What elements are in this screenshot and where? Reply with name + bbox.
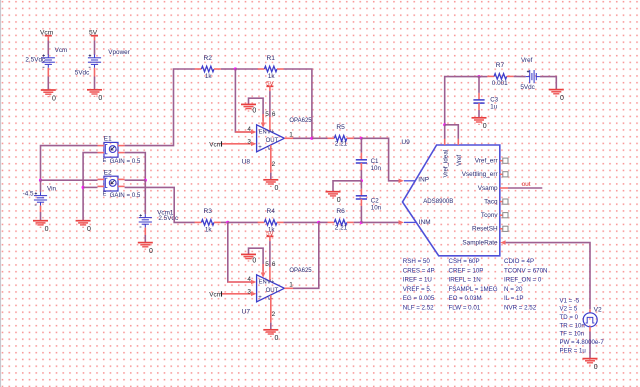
pin Vsamp stub [500, 187, 508, 189]
pin Tconv stub [500, 214, 503, 216]
svg-text:4: 4 [247, 126, 251, 133]
svg-text:6: 6 [272, 111, 276, 118]
pin Vref_err no-connect square [503, 158, 508, 163]
wire to pin 4 of U7 [228, 281, 251, 283]
svg-text:Vref: Vref [521, 57, 533, 64]
svg-text:1u: 1u [490, 104, 497, 111]
junction node C [317, 221, 320, 224]
wire U8 out to R5 node [293, 137, 312, 139]
svg-text:NVR = 2.52: NVR = 2.52 [504, 304, 537, 311]
voltage source Vcm1 battery [139, 214, 152, 227]
ground 0 under V2 [583, 359, 598, 366]
svg-text:10n: 10n [371, 165, 382, 172]
pin Vsettling_err no-connect square [503, 172, 508, 177]
ground at pin5 of U8 [241, 104, 256, 111]
svg-text:3: 3 [247, 138, 251, 145]
pin INP line [404, 180, 415, 182]
svg-text:ResetSH: ResetSH [472, 226, 498, 233]
capacitor C2 bottom pin [360, 199, 362, 206]
svg-text:0: 0 [560, 95, 564, 102]
resistor R3 body [201, 220, 214, 226]
svg-text:OPA625: OPA625 [289, 118, 312, 124]
wire junction to R7 [479, 76, 487, 78]
svg-text:5Vdc: 5Vdc [520, 84, 534, 91]
svg-text:OUT: OUT [266, 288, 279, 294]
svg-text:0: 0 [275, 335, 279, 342]
wire Vin battery to ground [40, 206, 42, 212]
pin Tacq no-connect square [503, 199, 508, 204]
pin INP arrow [399, 179, 404, 184]
resistor R6 left pin [328, 221, 335, 223]
svg-text:1k: 1k [205, 226, 213, 233]
wire C1 to mid node [360, 170, 362, 181]
svg-text:TCONV = 670N: TCONV = 670N [504, 267, 548, 274]
wire E2 minus input [83, 186, 97, 188]
op-amp U7 triangle [257, 275, 285, 302]
power port 5V for U8 [266, 85, 273, 87]
power port 5V symbol [91, 35, 98, 37]
wire C3 to ground [478, 110, 480, 118]
wire mid node down to C2 [360, 181, 362, 189]
ground 0 under Vpower [87, 90, 102, 97]
svg-text:IL = 1P: IL = 1P [504, 295, 524, 302]
svg-text:0.001: 0.001 [492, 80, 508, 87]
pin INM line [404, 221, 416, 223]
resistor R4 left pin [258, 221, 265, 223]
svg-text:Vsamp: Vsamp [478, 185, 498, 192]
voltage source Vcm battery [42, 54, 55, 67]
resistor R3 left pin [195, 221, 202, 223]
pin ResetSH stub [500, 228, 503, 230]
svg-text:2.5Vdc: 2.5Vdc [25, 57, 45, 64]
wire V2 to ground [589, 332, 591, 359]
pin Tacq stub [500, 201, 503, 203]
wire E1 minus output down to E2 [125, 153, 146, 181]
wire R6 to INM node [354, 221, 362, 223]
wire node B down to U7 pin4 [228, 222, 251, 282]
svg-text:U8: U8 [242, 158, 251, 165]
wire R4 to node C [284, 221, 319, 223]
svg-text:INP: INP [418, 177, 429, 184]
svg-text:V+: V+ [267, 129, 275, 135]
svg-text:Vsettling_err: Vsettling_err [462, 171, 499, 178]
junction Vref net at C3 [477, 75, 480, 78]
VCVS E1 source circle [109, 146, 116, 153]
svg-text:Vref_err: Vref_err [475, 158, 499, 165]
pin Vsettling_err stub [500, 173, 503, 175]
wire Vin node to battery [40, 180, 42, 192]
wire mid node to ground [333, 181, 361, 192]
wire Vcm port to battery [47, 41, 49, 55]
svg-text:2.21: 2.21 [335, 141, 348, 148]
svg-text:R5: R5 [336, 124, 345, 131]
svg-text:R4: R4 [267, 208, 276, 215]
svg-text:0: 0 [87, 226, 91, 233]
svg-text:0: 0 [275, 185, 279, 192]
wire to pin 4 of U8 [235, 131, 250, 133]
wire pin2 to ground of U7 [270, 323, 272, 330]
svg-text:-4.5: -4.5 [23, 190, 34, 197]
pin INM arrow [399, 220, 404, 225]
ADC U9 block outline [403, 145, 500, 256]
wire Vpower battery to ground [94, 68, 96, 77]
resistor R2 body [201, 66, 214, 72]
pin 5 arrow of U8 [261, 123, 266, 128]
svg-text:2.5Vdc: 2.5Vdc [158, 215, 178, 222]
ground 0 under Vcm1 [138, 243, 153, 250]
junction R5 C1 node [360, 137, 363, 140]
svg-text:V-: V- [267, 146, 273, 152]
VCVS E2 left input pins [98, 178, 105, 180]
wire node A to R1 [235, 68, 258, 70]
wire SampleRate to V2 [506, 243, 590, 310]
svg-text:10n: 10n [371, 205, 382, 212]
svg-text:5Vdc: 5Vdc [75, 70, 89, 77]
svg-text:U9: U9 [401, 139, 410, 146]
svg-text:R3: R3 [204, 208, 213, 215]
svg-text:4: 4 [247, 276, 251, 283]
op-amp U8 triangle [257, 125, 285, 152]
resistor R7 left pin [487, 75, 494, 77]
voltage source Vin battery [34, 192, 47, 205]
VCVS E2 body [104, 176, 118, 191]
wire pin5 to ground of U8 [249, 98, 264, 121]
svg-text:0: 0 [252, 108, 256, 115]
svg-text:INM: INM [419, 219, 431, 226]
junction at Vin node [39, 179, 42, 182]
svg-text:TR = 10n: TR = 10n [560, 322, 585, 329]
svg-text:PW = 4.8000e-7: PW = 4.8000e-7 [560, 339, 605, 346]
svg-text:CDIO = 4P: CDIO = 4P [504, 258, 534, 265]
svg-text:0: 0 [149, 248, 153, 255]
svg-text:3: 3 [247, 288, 251, 295]
junction node A [234, 67, 237, 70]
capacitor C3 plates [473, 100, 484, 103]
resistor R3 right pin [214, 221, 221, 223]
wire R5 to C1 node [354, 137, 362, 139]
svg-text:R6: R6 [336, 208, 345, 215]
svg-text:V2 = 5: V2 = 5 [560, 306, 578, 313]
wire R1 to feedback corner [284, 69, 312, 138]
resistor R7 right pin [507, 75, 514, 77]
wire Vin node up to E1 input [41, 146, 98, 181]
resistor R6 body [334, 220, 347, 226]
svg-text:E: E [103, 192, 107, 198]
svg-text:E1: E1 [104, 136, 112, 143]
wire to Vref_ideal pin [444, 125, 446, 139]
svg-text:C2: C2 [371, 197, 379, 204]
svg-text:IREF = 1U: IREF = 1U [403, 277, 432, 284]
ground 0 under Vref [549, 90, 564, 97]
pin 3 arrow of U7 [251, 292, 256, 297]
svg-text:V1 = -5: V1 = -5 [560, 297, 580, 304]
svg-text:C3: C3 [490, 96, 498, 103]
wire node A down to U8 pin4 [235, 69, 251, 132]
svg-text:V+: V+ [267, 279, 275, 285]
wire Vcm1 node to battery [144, 180, 146, 214]
capacitor C1 top pin [360, 153, 362, 160]
pin Vref_err stub [500, 160, 503, 162]
ground at pin5 of U7 [241, 254, 256, 261]
wire node C down to U7 out [293, 222, 319, 288]
capacitor C3 top pin [478, 93, 480, 100]
svg-text:VREF = 5.: VREF = 5. [403, 286, 432, 293]
wire Vcm1 battery to ground [144, 228, 146, 235]
VCVS E1 right output pins [118, 145, 125, 147]
VCVS E1 left input pins [98, 145, 105, 147]
svg-text:C1: C1 [371, 158, 379, 165]
svg-text:EG = 0.005: EG = 0.005 [403, 295, 435, 302]
pulse source V2 waveform glyph [586, 317, 595, 323]
svg-text:NLF = 2.52: NLF = 2.52 [403, 304, 434, 311]
VCVS E2 input bracket [106, 178, 108, 187]
svg-text:EN: EN [259, 129, 267, 135]
capacitor C2 plates [356, 196, 367, 199]
pin 5 stub of U7 [262, 264, 264, 273]
resistor R5 right pin [347, 137, 354, 139]
svg-text:2: 2 [272, 161, 276, 168]
pin SampleRate arrow [500, 240, 505, 245]
ground at pin2 of U7 [263, 330, 278, 337]
ground 0 under C3 [472, 118, 487, 125]
svg-text:0: 0 [98, 95, 102, 102]
wire node C to R6 [319, 221, 328, 223]
junction cap midpoint [360, 179, 363, 182]
wire R3 to node B [221, 221, 228, 223]
svg-text:FSAMPL = 1MEG: FSAMPL = 1MEG [449, 286, 498, 293]
svg-text:R2: R2 [204, 55, 213, 62]
power port 5V for U7 [266, 235, 273, 237]
svg-text:CRES = 4P: CRES = 4P [403, 267, 435, 274]
svg-text:0: 0 [337, 197, 341, 204]
svg-text:1: 1 [289, 132, 293, 139]
svg-text:E2: E2 [104, 169, 112, 176]
pin 6 stub of U7 [269, 267, 271, 281]
resistor R2 right pin [214, 68, 221, 70]
wire 5V to pin6 of U7 [269, 241, 271, 267]
wire INM node to INM pin [361, 221, 398, 223]
wire Vref battery to ground [540, 77, 556, 90]
VCVS E1 input bracket [106, 144, 108, 153]
wire 5V port to Vpower [94, 41, 96, 55]
svg-text:2.21: 2.21 [335, 225, 348, 232]
svg-text:Tconv: Tconv [481, 212, 498, 219]
VCVS E2 source circle [109, 180, 116, 187]
junction at E2 output node [144, 179, 147, 182]
resistor R4 right pin [277, 221, 284, 223]
svg-text:V2: V2 [594, 307, 602, 314]
svg-text:OUT: OUT [266, 138, 279, 144]
pulse source V2 bottom pin [589, 327, 591, 332]
svg-text:out: out [522, 181, 531, 188]
svg-text:FLW = 0.01: FLW = 0.01 [449, 304, 481, 311]
svg-text:Vcm: Vcm [55, 47, 68, 54]
pin 2 stub of U7 [270, 295, 272, 322]
wire Vref net down to C3 [478, 77, 480, 93]
capacitor C2 top pin [360, 189, 362, 196]
resistor R5 left pin [328, 137, 335, 139]
svg-text:5: 5 [265, 261, 269, 268]
wire Vin node to E2 input [41, 179, 98, 181]
ground 0 on input return [76, 221, 91, 228]
svg-text:CSH = 60P: CSH = 60P [449, 258, 480, 265]
resistor R1 left pin [258, 68, 265, 70]
junction R6 INM node [360, 221, 363, 224]
wire E1 output to R2 [125, 69, 195, 146]
resistor R4 body [264, 220, 277, 226]
pin 5 arrow of U7 [261, 273, 266, 278]
svg-text:Vcm: Vcm [209, 292, 222, 299]
svg-text:V-: V- [267, 296, 273, 302]
VCVS E1 body [104, 142, 118, 157]
VCVS E2 right output pins [118, 178, 125, 180]
wire node B to R4 [228, 221, 258, 223]
resistor R6 right pin [347, 221, 354, 223]
wire C1 node to INP [361, 138, 398, 181]
svg-text:R1: R1 [267, 55, 276, 62]
power port Vcm symbol [45, 35, 52, 37]
wire to Vref pin [445, 125, 459, 139]
wire E2 output [125, 179, 146, 181]
svg-text:EO = 0.03M: EO = 0.03M [449, 295, 482, 302]
svg-text:N = 20: N = 20 [504, 286, 523, 293]
svg-text:OPA625: OPA625 [289, 268, 312, 274]
pulse source V2 top pin [589, 309, 591, 313]
svg-text:GAIN = 0.5: GAIN = 0.5 [110, 192, 141, 199]
wire Vcm to pin 3 of U8 [222, 143, 251, 145]
junction node B [226, 221, 229, 224]
pin ResetSH no-connect square [503, 226, 508, 231]
svg-text:Vpower: Vpower [108, 49, 130, 56]
svg-text:RSH = 50: RSH = 50 [403, 258, 431, 265]
voltage source Vpower battery [88, 54, 101, 67]
resistor R5 body [334, 136, 347, 142]
net stub bar at pin3 of U7 [221, 291, 223, 296]
svg-text:E: E [103, 158, 107, 164]
svg-text:GAIN = 0.5: GAIN = 0.5 [110, 158, 141, 165]
svg-text:TF = 10n: TF = 10n [560, 331, 585, 338]
svg-text:Vref: Vref [456, 155, 463, 166]
wire E1 minus input down [83, 153, 97, 221]
wire Vcm to pin 3 of U7 [222, 293, 251, 295]
svg-text:Vcm: Vcm [209, 142, 222, 149]
svg-text:IREFL = 1N: IREFL = 1N [449, 277, 481, 284]
capacitor C1 plates [356, 160, 367, 163]
svg-text:0: 0 [252, 258, 256, 265]
svg-text:ADS8900B: ADS8900B [423, 198, 453, 205]
svg-text:U7: U7 [242, 308, 251, 315]
svg-text:Vin: Vin [47, 185, 57, 192]
wire E2 minus output to R3 [125, 187, 195, 222]
pin 5 stub of U8 [262, 114, 264, 123]
wire C2 to INM node [360, 206, 362, 222]
svg-text:0: 0 [594, 364, 598, 371]
svg-text:1: 1 [289, 282, 293, 289]
svg-text:Tacq: Tacq [484, 199, 498, 206]
wire R7 to Vref battery [514, 75, 526, 77]
resistor R2 left pin [195, 68, 202, 70]
capacitor C3 bottom pin [478, 103, 480, 110]
svg-text:IREF_ON = 0: IREF_ON = 0 [504, 277, 542, 284]
junction U8 output [310, 137, 313, 140]
svg-text:EN: EN [259, 279, 267, 285]
pin 1 stub of U7 [284, 287, 293, 289]
voltage source Vref battery [526, 70, 540, 83]
svg-text:R7: R7 [496, 62, 505, 69]
svg-text:1k: 1k [205, 73, 213, 80]
junction Vref pins node [443, 123, 446, 126]
wire 5V to pin6 of U8 [269, 91, 271, 117]
svg-text:SampleRate: SampleRate [462, 240, 498, 247]
ground 0 under Vin [33, 221, 48, 228]
svg-text:6: 6 [272, 261, 276, 268]
wire pin5 to ground of U7 [249, 248, 264, 271]
svg-text:1k: 1k [268, 73, 276, 80]
svg-text:0: 0 [52, 95, 56, 102]
wire pin2 to ground of U8 [270, 173, 272, 180]
svg-text:PER = 1u: PER = 1u [560, 347, 586, 354]
pin 1 stub of U8 [284, 137, 293, 139]
wire Vsamp to out [508, 187, 542, 189]
resistor R7 body [494, 74, 507, 80]
wire junction to R5 [312, 137, 328, 139]
net stub bar at pin3 of U8 [221, 141, 223, 146]
pin 6 stub of U8 [269, 117, 271, 131]
pin Vref_ideal stub [444, 139, 446, 145]
pin 4 arrow of U8 [251, 130, 256, 135]
wire Vcm battery to ground [47, 68, 49, 77]
svg-text:0: 0 [483, 123, 487, 130]
svg-text:CREF = 10P: CREF = 10P [449, 267, 484, 274]
pin Vref stub [457, 139, 459, 145]
svg-text:5: 5 [265, 111, 269, 118]
svg-text:0: 0 [45, 226, 49, 233]
pin Tconv no-connect square [503, 213, 508, 218]
svg-text:+: + [258, 145, 262, 151]
svg-text:2: 2 [272, 311, 276, 318]
wire R2 to node A [221, 68, 236, 70]
capacitor C1 bottom pin [360, 163, 362, 170]
svg-text:TD = 0: TD = 0 [560, 314, 579, 321]
pin 4 arrow of U7 [251, 280, 256, 285]
junction at E2 minus input [82, 186, 85, 189]
ground at pin2 of U8 [263, 180, 278, 187]
ground 0 at cap midpoint [326, 192, 341, 199]
wire Vref net to block corner [445, 77, 479, 125]
pin 2 stub of U8 [270, 145, 272, 172]
resistor R1 right pin [277, 68, 284, 70]
svg-text:Vref_ideal: Vref_ideal [443, 150, 450, 178]
wire C1 node down [360, 138, 362, 153]
svg-text:+: + [258, 295, 262, 301]
ground 0 under Vcm [41, 90, 56, 97]
resistor R1 body [264, 66, 277, 72]
pulse source V2 circle [583, 313, 597, 327]
pin 3 arrow of U8 [251, 142, 256, 147]
